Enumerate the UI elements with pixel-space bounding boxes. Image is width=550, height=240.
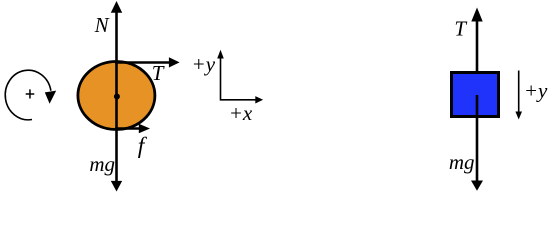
svg-text:T: T	[454, 17, 467, 41]
plus sign (positive rotation)	[26, 89, 35, 98]
svg-text:N: N	[94, 13, 110, 37]
svg-text:mg: mg	[449, 150, 475, 174]
weight mg arrow (down, left figure)	[115, 97, 118, 182]
pulley center dot	[114, 94, 120, 100]
normal force N arrow (up)	[115, 12, 118, 97]
tension T arrow (left figure)	[115, 61, 170, 64]
weight mg arrow (right figure, down)	[476, 95, 479, 181]
rotation indicator arrowhead	[45, 91, 56, 104]
svg-text:+y: +y	[192, 52, 216, 76]
rotation direction indicator arc	[5, 70, 51, 120]
axes +x arrowhead	[255, 96, 263, 103]
+y direction arrow (right figure)	[518, 71, 520, 114]
svg-text:mg: mg	[89, 152, 115, 176]
svg-text:+x: +x	[229, 101, 253, 125]
pulley (orange disk)	[78, 62, 155, 130]
svg-text:+y: +y	[524, 79, 548, 103]
axes +y arrowhead	[217, 50, 224, 59]
friction f arrow	[115, 127, 140, 130]
tension T arrow (right figure, up)	[476, 21, 479, 72]
svg-text:T: T	[152, 61, 165, 85]
coordinate axes	[221, 55, 257, 100]
block (blue square)	[452, 73, 499, 117]
